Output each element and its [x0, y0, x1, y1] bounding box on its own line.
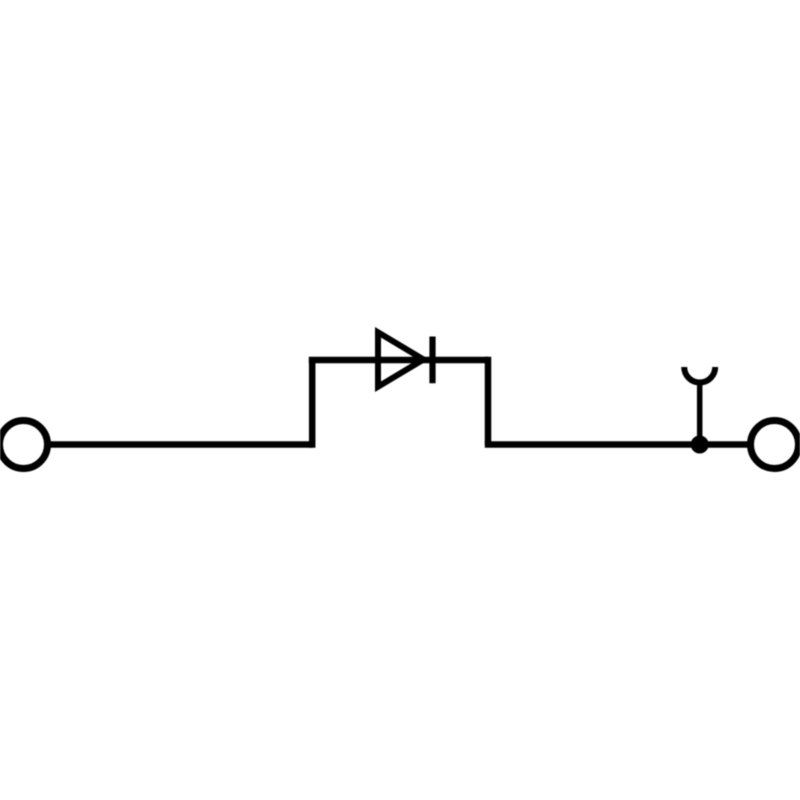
- diode D1 triangle: [378, 332, 424, 386]
- wire right vertical drop: [485, 357, 492, 445]
- diode D1 cathode bar: [429, 337, 435, 384]
- wire test-point stem: [697, 383, 703, 445]
- junction dot: [694, 439, 706, 451]
- wire left vertical riser: [309, 360, 316, 448]
- terminal circle right: [751, 421, 799, 469]
- wire bottom-right: [485, 441, 751, 448]
- terminal circle left: [0, 421, 48, 469]
- wire top through diode: [309, 357, 488, 364]
- test socket (open contact arc): [684, 367, 715, 382]
- wire bottom-left: [49, 441, 312, 448]
